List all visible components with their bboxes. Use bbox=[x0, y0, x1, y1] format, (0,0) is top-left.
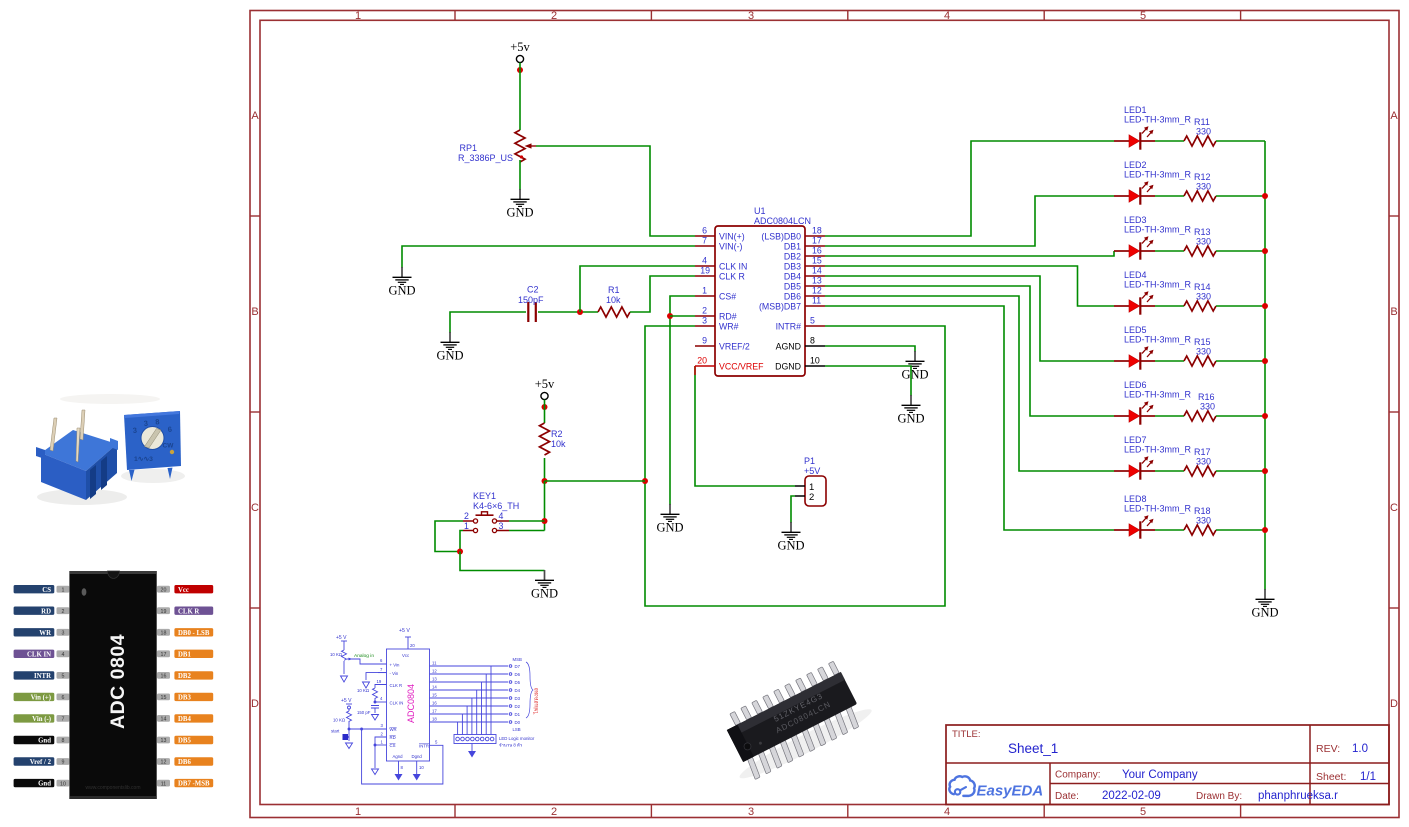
resistor R18 330 bbox=[1184, 506, 1216, 535]
svg-text:INTR: INTR bbox=[34, 673, 51, 680]
svg-text:330: 330 bbox=[1196, 347, 1211, 357]
svg-text:2: 2 bbox=[702, 306, 707, 316]
svg-text:R13: R13 bbox=[1194, 227, 1211, 237]
svg-text:6: 6 bbox=[62, 695, 65, 701]
node bus junction bbox=[1262, 527, 1268, 533]
svg-text:DB7 -MSB: DB7 -MSB bbox=[178, 781, 210, 788]
svg-text:14: 14 bbox=[812, 266, 822, 276]
svg-text:20: 20 bbox=[697, 356, 707, 366]
svg-text:3: 3 bbox=[381, 723, 384, 728]
svg-text:10: 10 bbox=[419, 765, 424, 770]
svg-text:LED-TH-3mm_R: LED-TH-3mm_R bbox=[1124, 225, 1192, 235]
pinout label pin 15 DB3 bbox=[157, 693, 213, 702]
svg-text:D7: D7 bbox=[515, 664, 521, 669]
svg-text:5: 5 bbox=[435, 740, 438, 745]
resistor R1 bbox=[598, 285, 630, 317]
svg-text:D2: D2 bbox=[515, 704, 521, 709]
pinout label pin 5 INTR bbox=[14, 671, 70, 680]
wire ground to C2 bbox=[450, 312, 526, 333]
svg-text:CS#: CS# bbox=[719, 292, 736, 302]
svg-text:LED3: LED3 bbox=[1124, 215, 1147, 225]
svg-text:4: 4 bbox=[62, 652, 65, 658]
pin 2 RD# bbox=[695, 306, 737, 322]
svg-text:VCC/VREF: VCC/VREF bbox=[719, 362, 764, 372]
wire LED3 to R13 bbox=[1155, 250, 1184, 252]
svg-text:A: A bbox=[251, 110, 259, 122]
svg-text:D1: D1 bbox=[515, 712, 521, 717]
svg-text:DGND: DGND bbox=[775, 362, 801, 372]
wire +5v to R2 bbox=[544, 400, 546, 423]
svg-text:LED6: LED6 bbox=[1124, 380, 1147, 390]
svg-text:(MSB)DB7: (MSB)DB7 bbox=[759, 302, 801, 312]
svg-text:3: 3 bbox=[748, 10, 754, 22]
pin 11 DB7 bbox=[759, 296, 825, 312]
svg-text:phanphrueksa.r: phanphrueksa.r bbox=[1258, 790, 1338, 802]
svg-text:LED4: LED4 bbox=[1124, 270, 1147, 280]
svg-text:1: 1 bbox=[702, 286, 707, 296]
wire LED8 to R18 bbox=[1155, 529, 1184, 531]
pinout label pin 20 Vcc bbox=[157, 585, 213, 594]
svg-text:WR#: WR# bbox=[719, 322, 739, 332]
svg-text:3: 3 bbox=[702, 316, 707, 326]
ground (P1) bbox=[777, 522, 804, 553]
ground (DGND) bbox=[897, 395, 924, 426]
svg-text:Vin (+): Vin (+) bbox=[31, 695, 51, 702]
resistor R2 bbox=[540, 423, 567, 455]
svg-text:+5 V: +5 V bbox=[336, 635, 347, 641]
svg-text:9: 9 bbox=[702, 336, 707, 346]
wire R11 to bus bbox=[1216, 140, 1265, 142]
svg-text:RP1: RP1 bbox=[459, 143, 477, 153]
wire R16 to bus bbox=[1216, 415, 1265, 417]
svg-text:www.componentslib.com: www.componentslib.com bbox=[85, 785, 140, 791]
pin 6 VIN(+) bbox=[695, 226, 745, 242]
svg-text:12: 12 bbox=[812, 286, 822, 296]
pin 14 DB4 bbox=[784, 266, 825, 282]
pinout label pin 3 WR bbox=[14, 628, 70, 637]
svg-text:150pF: 150pF bbox=[518, 295, 544, 305]
svg-text:Vref / 2: Vref / 2 bbox=[30, 759, 52, 766]
node bus junction bbox=[1262, 358, 1268, 364]
svg-text:Vcc: Vcc bbox=[402, 653, 410, 658]
wire junction to CLK IN pin 4 bbox=[580, 266, 695, 312]
svg-text:D: D bbox=[1390, 698, 1398, 710]
svg-text:B: B bbox=[251, 306, 258, 318]
pin 19 CLK R bbox=[695, 266, 745, 282]
svg-text:ADC0804: ADC0804 bbox=[406, 684, 416, 723]
wire LED4 to R14 bbox=[1155, 305, 1184, 307]
frame column numbers bbox=[355, 10, 1146, 818]
svg-text:Dgnd: Dgnd bbox=[412, 754, 423, 759]
resistor R15 330 bbox=[1184, 337, 1216, 366]
svg-text:7: 7 bbox=[702, 236, 707, 246]
svg-text:R2: R2 bbox=[551, 429, 563, 439]
svg-text:14: 14 bbox=[432, 685, 437, 690]
mini Vcc wire bbox=[407, 637, 409, 649]
pin 5 INTR# bbox=[776, 316, 825, 332]
svg-text:4: 4 bbox=[499, 511, 504, 521]
svg-text:10k: 10k bbox=[606, 295, 621, 305]
pinout label pin 11 DB7 -MSB bbox=[157, 779, 213, 788]
pin 9 VREF/2 bbox=[695, 336, 750, 352]
svg-text:CLK IN: CLK IN bbox=[719, 262, 747, 272]
ground (AGND) bbox=[901, 351, 928, 382]
svg-text:CLK IN: CLK IN bbox=[27, 651, 51, 658]
DIP chip pins bbox=[723, 661, 865, 779]
svg-text:19: 19 bbox=[377, 679, 382, 684]
svg-text:Agnd: Agnd bbox=[393, 754, 404, 759]
wire R13 to bus bbox=[1216, 250, 1265, 252]
svg-text:Drawn By:: Drawn By: bbox=[1196, 791, 1242, 802]
svg-text:12: 12 bbox=[161, 760, 167, 766]
svg-text:13: 13 bbox=[161, 738, 167, 744]
pin 15 DB3 bbox=[784, 256, 825, 272]
wire DB0 to LED1 bbox=[825, 141, 1114, 236]
svg-text:3: 3 bbox=[132, 426, 137, 435]
svg-text:4: 4 bbox=[944, 10, 950, 22]
pinout label pin 9 Vref / 2 bbox=[14, 757, 70, 766]
svg-text:LSB: LSB bbox=[513, 727, 521, 732]
wire node to WR junction bbox=[545, 480, 646, 482]
svg-text:LED8: LED8 bbox=[1124, 494, 1147, 504]
ground (C2) bbox=[436, 332, 463, 363]
svg-text:R14: R14 bbox=[1194, 282, 1211, 292]
svg-text:15: 15 bbox=[161, 695, 167, 701]
svg-text:2: 2 bbox=[551, 806, 557, 818]
svg-text:1: 1 bbox=[62, 587, 65, 593]
connector P1 bbox=[795, 456, 826, 506]
pinout label pin 6 Vin (+) bbox=[14, 693, 70, 702]
svg-text:INTR#: INTR# bbox=[776, 322, 802, 332]
svg-text:R1: R1 bbox=[608, 285, 620, 295]
svg-text:16: 16 bbox=[161, 674, 167, 680]
wire WR# pin 3 loop to INTR# pin 5 bbox=[645, 326, 945, 606]
pinout label pin 7 Vin (-) bbox=[14, 714, 70, 723]
svg-text:WR: WR bbox=[39, 630, 51, 637]
pin 20 VCC/VREF bbox=[695, 356, 764, 372]
svg-text:11: 11 bbox=[161, 781, 167, 787]
svg-text:7: 7 bbox=[62, 717, 65, 723]
mini clock RC bbox=[375, 685, 387, 689]
svg-text:20: 20 bbox=[161, 587, 167, 593]
node junction WR/KEY bbox=[642, 478, 648, 484]
wire KEY1 pin 2 to pin 1 node bbox=[435, 521, 463, 552]
svg-text:AGND: AGND bbox=[776, 342, 801, 352]
svg-text:REV:: REV: bbox=[1316, 743, 1340, 755]
wire AGND to ground bbox=[825, 346, 915, 352]
mini brace bbox=[526, 662, 533, 718]
svg-text:16: 16 bbox=[432, 701, 437, 706]
pin 3 WR# bbox=[695, 316, 739, 332]
svg-text:Gnd: Gnd bbox=[38, 781, 51, 788]
svg-text:17: 17 bbox=[432, 709, 437, 714]
svg-text:LED5: LED5 bbox=[1124, 325, 1147, 335]
svg-text:15: 15 bbox=[812, 256, 822, 266]
svg-text:CS: CS bbox=[42, 587, 51, 594]
svg-text:D5: D5 bbox=[515, 680, 521, 685]
mini schematic texts bbox=[330, 628, 540, 770]
ground (RP1) bbox=[506, 189, 533, 220]
svg-text:6: 6 bbox=[702, 226, 707, 236]
svg-text:Gnd: Gnd bbox=[38, 738, 51, 745]
svg-text:CLK IN: CLK IN bbox=[390, 701, 404, 706]
svg-text:8: 8 bbox=[810, 336, 815, 346]
svg-text:start: start bbox=[331, 729, 340, 734]
svg-text:(LSB)DB0: (LSB)DB0 bbox=[761, 232, 801, 242]
svg-text:D: D bbox=[251, 698, 259, 710]
wire LED1 to R11 bbox=[1155, 140, 1184, 142]
frame column ticks top bbox=[455, 11, 1241, 21]
mini RD CS wires bbox=[375, 737, 387, 768]
wire LED7 to R17 bbox=[1155, 470, 1184, 472]
svg-text:VIN(-): VIN(-) bbox=[719, 242, 743, 252]
svg-text:10 KΩ: 10 KΩ bbox=[357, 688, 370, 693]
node bus junction bbox=[1262, 303, 1268, 309]
frame column ticks bottom bbox=[455, 805, 1241, 818]
wire R1 to CLK R pin 19 bbox=[630, 276, 695, 312]
ground (KEY1) bbox=[531, 570, 558, 601]
svg-text:3: 3 bbox=[499, 521, 504, 531]
pin 16 DB2 bbox=[784, 246, 825, 262]
wire DB1 to LED2 bbox=[825, 196, 1114, 246]
svg-text:RD#: RD# bbox=[719, 312, 737, 322]
svg-text:DB1: DB1 bbox=[178, 651, 191, 658]
wire DB4 to LED5 bbox=[825, 276, 1114, 361]
svg-text:8: 8 bbox=[401, 765, 404, 770]
svg-text:DB3: DB3 bbox=[784, 262, 801, 272]
svg-text:2: 2 bbox=[551, 10, 557, 22]
wire R14 to bus bbox=[1216, 305, 1265, 307]
svg-text:DB6: DB6 bbox=[784, 292, 801, 302]
svg-text:3: 3 bbox=[62, 631, 65, 637]
wire DB6 to LED7 bbox=[825, 296, 1114, 471]
svg-text:10: 10 bbox=[810, 356, 820, 366]
wire DB2 to LED3 bbox=[825, 251, 1114, 256]
pinout label pin 8 Gnd bbox=[14, 736, 70, 745]
svg-text:1: 1 bbox=[355, 10, 361, 22]
wire R15 to bus bbox=[1216, 360, 1265, 362]
svg-text:330: 330 bbox=[1196, 237, 1211, 247]
LED2 LED-TH-3mm_R bbox=[1114, 160, 1192, 205]
svg-text:DB1: DB1 bbox=[784, 242, 801, 252]
svg-text:330: 330 bbox=[1196, 457, 1211, 467]
svg-text:D0: D0 bbox=[515, 720, 521, 725]
pinout label pin 17 DB1 bbox=[157, 650, 213, 659]
wire VCC red bend bbox=[694, 366, 696, 375]
svg-text:18: 18 bbox=[161, 631, 167, 637]
svg-text:15: 15 bbox=[432, 693, 437, 698]
wire R18 to bus bbox=[1216, 529, 1265, 531]
svg-text:CLK R: CLK R bbox=[390, 683, 403, 688]
svg-text:Sheet:: Sheet: bbox=[1316, 771, 1346, 783]
power flag +5v (RP1) bbox=[510, 40, 530, 73]
svg-text:8: 8 bbox=[62, 738, 65, 744]
svg-text:DB3: DB3 bbox=[178, 695, 191, 702]
svg-text:5: 5 bbox=[1140, 10, 1146, 22]
svg-text:R12: R12 bbox=[1194, 172, 1211, 182]
svg-text:1/1: 1/1 bbox=[1360, 771, 1376, 783]
svg-text:K4-6×6_TH: K4-6×6_TH bbox=[473, 501, 519, 511]
svg-text:Vin (-): Vin (-) bbox=[32, 716, 51, 723]
svg-text:Analog in: Analog in bbox=[354, 653, 374, 659]
pin 13 DB5 bbox=[784, 276, 825, 292]
LED3 LED-TH-3mm_R bbox=[1114, 215, 1192, 260]
pinout label pin 16 DB2 bbox=[157, 671, 213, 680]
svg-text:3: 3 bbox=[748, 806, 754, 818]
svg-text:LED-TH-3mm_R: LED-TH-3mm_R bbox=[1124, 445, 1192, 455]
node KEY1 pin4 bbox=[542, 518, 548, 524]
svg-text:1.0: 1.0 bbox=[1352, 743, 1368, 755]
svg-text:17: 17 bbox=[812, 236, 822, 246]
svg-text:10: 10 bbox=[60, 781, 66, 787]
svg-text:1: 1 bbox=[464, 521, 469, 531]
LED7 LED-TH-3mm_R bbox=[1114, 435, 1192, 480]
node bus junction bbox=[1262, 248, 1268, 254]
svg-text:9: 9 bbox=[62, 760, 65, 766]
svg-text:DB0 - LSB: DB0 - LSB bbox=[178, 630, 210, 637]
DIP chip body bbox=[727, 672, 857, 762]
frame row ticks bbox=[250, 216, 1399, 608]
svg-text:MSB: MSB bbox=[513, 657, 522, 662]
capacitor C2 bbox=[518, 285, 544, 323]
ground (LED bus) bbox=[1251, 589, 1278, 620]
svg-text:R17: R17 bbox=[1194, 447, 1211, 457]
svg-text:150 pF: 150 pF bbox=[357, 710, 371, 715]
svg-text:330: 330 bbox=[1196, 292, 1211, 302]
svg-text:R_3386P_US: R_3386P_US bbox=[458, 153, 513, 163]
LED5 LED-TH-3mm_R bbox=[1114, 325, 1192, 370]
svg-text:11: 11 bbox=[812, 296, 821, 306]
svg-text:Sheet_1: Sheet_1 bbox=[1008, 741, 1058, 756]
resistor R14 330 bbox=[1184, 282, 1216, 311]
svg-text:DB2: DB2 bbox=[784, 252, 801, 262]
svg-text:2: 2 bbox=[464, 511, 469, 521]
wire RP1 wiper to VIN(+) pin 6 bbox=[536, 146, 695, 236]
pin 1 CS# bbox=[695, 286, 736, 302]
svg-text:6: 6 bbox=[167, 425, 172, 434]
svg-text:+5 V: +5 V bbox=[341, 698, 352, 704]
svg-text:Date:: Date: bbox=[1055, 791, 1079, 802]
svg-text:2: 2 bbox=[62, 609, 65, 615]
wire node down to KEY1 pin 4 bbox=[544, 481, 546, 531]
svg-text:ADC 0804: ADC 0804 bbox=[107, 634, 129, 729]
svg-text:LED7: LED7 bbox=[1124, 435, 1147, 445]
node KEY1 gnd bbox=[457, 549, 463, 555]
pin 8 AGND bbox=[776, 336, 825, 352]
svg-text:330: 330 bbox=[1196, 516, 1211, 526]
pin 10 DGND bbox=[775, 356, 825, 372]
wire VIN(-) pin 7 to ground bbox=[402, 246, 695, 268]
pinout label pin 13 DB5 bbox=[157, 736, 213, 745]
svg-text:D3: D3 bbox=[515, 696, 521, 701]
EasyEDA logo bbox=[949, 776, 974, 796]
pinout label pin 12 DB6 bbox=[157, 757, 213, 766]
node bus junction bbox=[1262, 193, 1268, 199]
node R2/KEY1 bbox=[542, 478, 548, 484]
svg-text:CLK R: CLK R bbox=[178, 608, 199, 615]
mini agnd dgnd pins bbox=[398, 761, 400, 774]
svg-text:จำนวน 8 ตัว: จำนวน 8 ตัว bbox=[499, 743, 523, 748]
pin 17 DB1 bbox=[784, 236, 825, 252]
svg-text:Vcc: Vcc bbox=[178, 587, 189, 594]
svg-text:3: 3 bbox=[143, 419, 148, 428]
mini LED monitor bbox=[454, 735, 496, 744]
svg-text:ไฟแสดงผล: ไฟแสดงผล bbox=[533, 688, 540, 715]
wire R17 to bus bbox=[1216, 470, 1265, 472]
LED6 LED-TH-3mm_R bbox=[1114, 380, 1192, 425]
ground (VIN-) bbox=[388, 267, 415, 298]
mini INTR loop bbox=[362, 729, 443, 784]
svg-text:13: 13 bbox=[812, 276, 822, 286]
svg-text:LED-TH-3mm_R: LED-TH-3mm_R bbox=[1124, 335, 1192, 345]
svg-text:VREF/2: VREF/2 bbox=[719, 342, 750, 352]
svg-text:INTR: INTR bbox=[419, 744, 429, 749]
wire LED2 to R12 bbox=[1155, 195, 1184, 197]
LED4 LED-TH-3mm_R bbox=[1114, 270, 1192, 315]
svg-text:5: 5 bbox=[62, 674, 65, 680]
mini -Vin gnd bbox=[366, 673, 387, 680]
wire CS# pin 1 down to RD junction bbox=[670, 296, 695, 505]
svg-text:Your Company: Your Company bbox=[1122, 769, 1198, 781]
svg-text:LED2: LED2 bbox=[1124, 160, 1147, 170]
svg-text:10 KΩ: 10 KΩ bbox=[333, 718, 346, 723]
svg-text:R16: R16 bbox=[1198, 392, 1215, 402]
pinout label pin 19 CLK R bbox=[157, 607, 213, 616]
mini left pin stubs bbox=[378, 663, 387, 665]
svg-text:1∿∿3: 1∿∿3 bbox=[134, 456, 153, 463]
svg-text:D6: D6 bbox=[515, 672, 521, 677]
wire KEY1 pin 1 down bbox=[460, 531, 463, 552]
svg-text:RD: RD bbox=[390, 735, 396, 740]
svg-text:EasyEDA: EasyEDA bbox=[977, 783, 1044, 800]
svg-text:13: 13 bbox=[432, 677, 437, 682]
svg-text:CLK R: CLK R bbox=[719, 272, 745, 282]
wire DB7 to LED8 bbox=[825, 306, 1114, 530]
potentiometer RP1 bbox=[458, 130, 536, 163]
node junction C2/R1/CLKIN bbox=[577, 309, 583, 315]
svg-text:4: 4 bbox=[380, 696, 383, 701]
svg-text:19: 19 bbox=[161, 609, 167, 615]
svg-text:DB4: DB4 bbox=[784, 272, 801, 282]
svg-text:330: 330 bbox=[1196, 127, 1211, 137]
resistor R11 330 bbox=[1184, 117, 1216, 146]
pinout label pin 4 CLK IN bbox=[14, 650, 70, 659]
svg-text:20: 20 bbox=[410, 643, 415, 648]
sheet frame inner border bbox=[260, 20, 1389, 804]
svg-text:LED-TH-3mm_R: LED-TH-3mm_R bbox=[1124, 504, 1192, 514]
pin 4 CLK IN bbox=[695, 256, 747, 272]
svg-text:RD: RD bbox=[41, 608, 51, 615]
wire R12 to bus bbox=[1216, 195, 1265, 197]
svg-text:LED-TH-3mm_R: LED-TH-3mm_R bbox=[1124, 170, 1192, 180]
wire RP1 to ground bbox=[519, 160, 521, 190]
svg-text:- Vin: - Vin bbox=[390, 671, 399, 676]
node bus junction bbox=[1262, 468, 1268, 474]
LED8 LED-TH-3mm_R bbox=[1114, 494, 1192, 539]
pin 12 DB6 bbox=[784, 286, 825, 302]
wire DB5 to LED6 bbox=[825, 286, 1114, 416]
wire P1 pin 2 to ground bbox=[791, 496, 795, 523]
svg-text:10 KΩ: 10 KΩ bbox=[330, 652, 343, 657]
wire KEY1 pin 4 bbox=[509, 520, 545, 522]
svg-text:10k: 10k bbox=[551, 439, 566, 449]
pinout label pin 2 RD bbox=[14, 607, 70, 616]
right trimmer pot body bbox=[124, 411, 181, 481]
svg-text:1: 1 bbox=[381, 740, 384, 745]
svg-text:R18: R18 bbox=[1194, 506, 1211, 516]
svg-text:DB6: DB6 bbox=[178, 759, 191, 766]
svg-text:18: 18 bbox=[812, 226, 822, 236]
